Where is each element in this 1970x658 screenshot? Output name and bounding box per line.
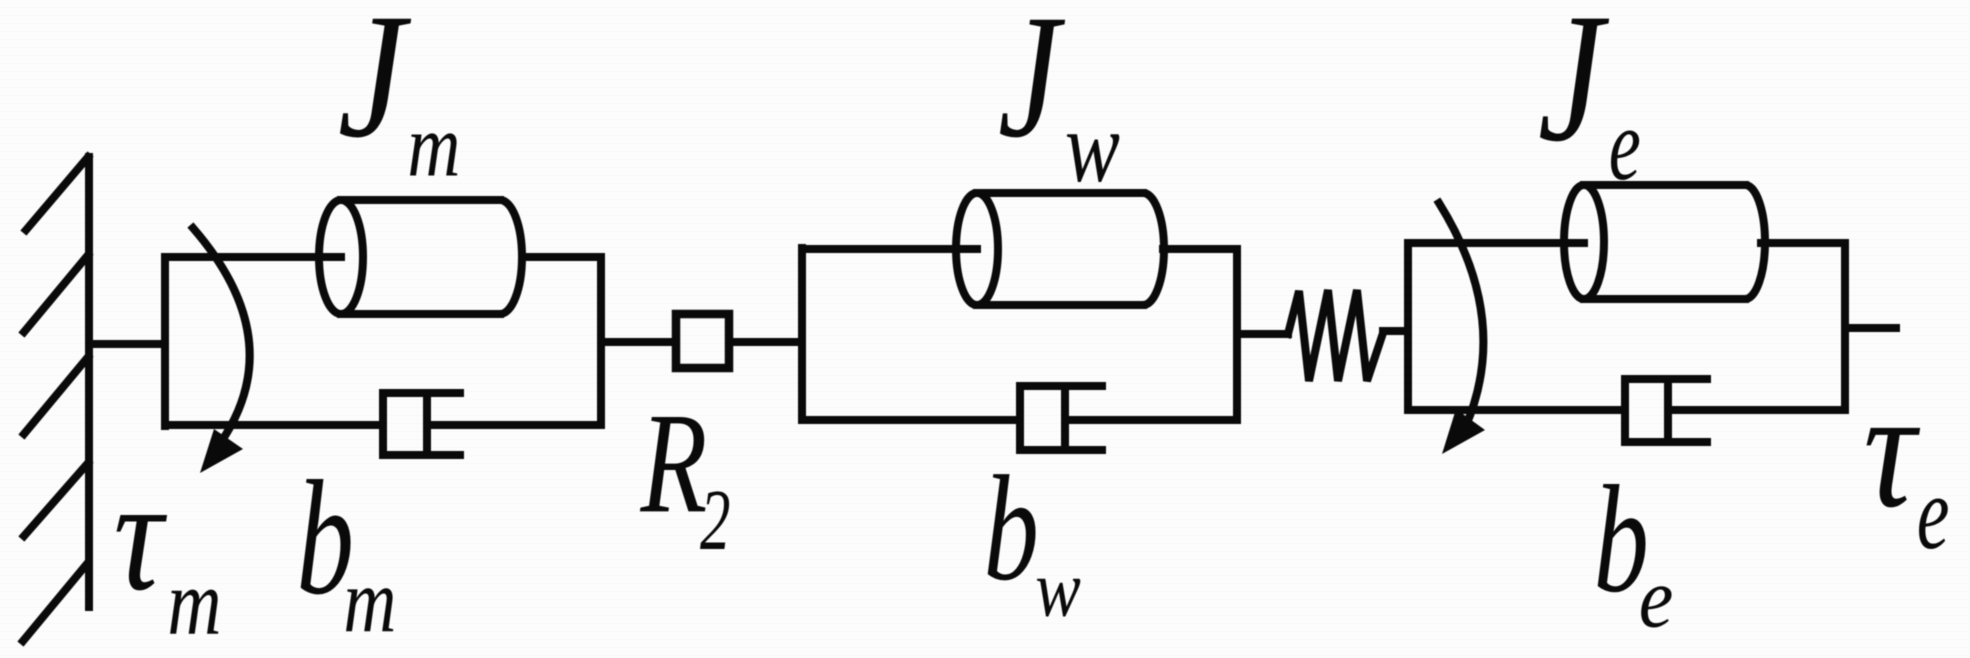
svg-text:b: b	[984, 444, 1039, 612]
svg-text:τ: τ	[114, 446, 168, 624]
ground wall	[23, 157, 89, 641]
svg-text:e: e	[1609, 89, 1641, 203]
svg-text:m: m	[407, 96, 460, 195]
damper b_w	[1020, 386, 1102, 450]
label J_m	[338, 0, 461, 195]
svg-text:m: m	[343, 550, 396, 651]
wire loop2 to spring	[1237, 330, 1288, 338]
label b_e	[1594, 454, 1674, 645]
svg-text:w: w	[1065, 91, 1120, 204]
svg-text:J: J	[998, 0, 1065, 175]
inertia J_w (cylinder)	[956, 193, 1164, 305]
inertia J_e (cylinder)	[1564, 185, 1765, 299]
svg-text:m: m	[167, 551, 221, 655]
svg-text:J: J	[1538, 0, 1610, 180]
svg-text:τ: τ	[1863, 356, 1920, 543]
damper b_m	[383, 393, 460, 455]
svg-text:2: 2	[700, 473, 730, 569]
output stub wire (tau_e shaft)	[1845, 324, 1896, 332]
label J_w	[998, 0, 1120, 204]
node loop2 (wheel frame)	[802, 248, 1237, 420]
wire R2 to loop2	[733, 338, 802, 346]
svg-text:e: e	[1639, 550, 1674, 646]
svg-text:e: e	[1917, 454, 1950, 571]
svg-text:R: R	[640, 383, 708, 543]
wire wall to shaft loop 1	[89, 340, 165, 348]
label R_2	[640, 383, 731, 569]
inertia J_m (cylinder)	[319, 200, 522, 314]
torque arrow tau_e	[1439, 203, 1485, 454]
label b_w	[984, 444, 1081, 633]
label b_m	[296, 447, 396, 652]
node loop1 (motor shaft frame)	[165, 257, 601, 426]
torque arrow tau_m	[193, 228, 250, 473]
node loop3 (load frame)	[1408, 243, 1845, 410]
wire loop1 to R2	[601, 338, 672, 346]
damper b_e	[1625, 379, 1707, 442]
wire spring to loop3	[1383, 327, 1408, 335]
svg-text:J: J	[338, 0, 412, 174]
spring (shaft compliance)	[1288, 290, 1383, 381]
gear ratio block R2	[676, 314, 729, 368]
label tau_m	[114, 446, 222, 655]
label J_e	[1538, 0, 1641, 202]
svg-text:w: w	[1035, 545, 1081, 633]
label tau_e	[1863, 356, 1949, 571]
